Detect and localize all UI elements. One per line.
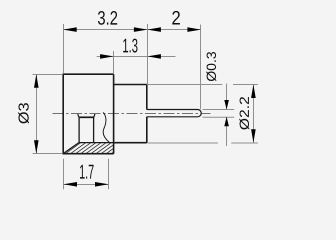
dia0.3 dim line [226, 84, 228, 110]
dia2.2 extension line top [147, 84, 222, 86]
dim 1.7 arrow right [95, 182, 109, 187]
dia0.3 text [206, 52, 216, 81]
dia3 arrow top [34, 74, 39, 88]
dim 1.7 extension line right [108, 159, 110, 190]
socket flare right [94, 114, 95, 117]
dim 2 extension line right [200, 25, 202, 110]
dim 2 line [147, 29, 201, 31]
dia0.3 arrow up [224, 117, 229, 127]
dia0.3 extension line bottom [203, 116, 235, 118]
middle section outline [114, 85, 147, 143]
dim 3.2 line [63, 29, 147, 31]
dim 3.2/2 shared extension line [147, 24, 149, 84]
dia2.2 dim line [253, 85, 255, 143]
bore chamfer diagonal [64, 143, 79, 154]
dim 1.7 line [64, 184, 109, 186]
dia2.2 extension line bottom [147, 142, 218, 144]
dia3 extension line top [33, 74, 63, 76]
hatching [59, 142, 127, 154]
dim 2 arrow left [147, 27, 161, 32]
socket contact left wall [78, 117, 80, 143]
dia3 text [18, 103, 29, 124]
dia0.3 extension line top [203, 109, 235, 111]
dim 1.3 arrow right [147, 54, 161, 59]
dim 1.7 text [80, 165, 94, 179]
dim 3.2 arrow right [134, 27, 148, 32]
dim 2 text [172, 11, 180, 25]
dia0.3 arrow down [224, 100, 229, 110]
dia2.2 text [239, 97, 249, 130]
pin [147, 110, 201, 117]
big body outline [63, 74, 113, 154]
bore line [79, 142, 113, 144]
socket flare left [78, 114, 79, 117]
dia3 arrow bottom [34, 140, 39, 154]
dim 1.3 text [123, 39, 137, 53]
break line (wavy) [103, 112, 110, 143]
dim 2 arrow right [187, 27, 201, 32]
socket contact stem [93, 117, 95, 142]
dim 1.7 arrow left [64, 182, 78, 187]
dim 1.3 extension line left [113, 51, 115, 74]
centerline [53, 113, 211, 115]
dim 1.3 arrow left [100, 54, 114, 59]
dim 1.3 line [97, 56, 176, 58]
dim 3.2 arrow left [63, 27, 76, 32]
dia2.2 arrow bottom [251, 129, 256, 143]
dim 1.7 extension line left [63, 159, 65, 190]
dia3 dim line [36, 74, 38, 154]
dia3 extension line bottom [33, 153, 63, 155]
socket contact top bar [79, 116, 95, 118]
dia2.2 arrow top [251, 85, 256, 99]
dim 3.2 extension line left [63, 24, 65, 74]
dim 3.2 text [98, 11, 117, 25]
